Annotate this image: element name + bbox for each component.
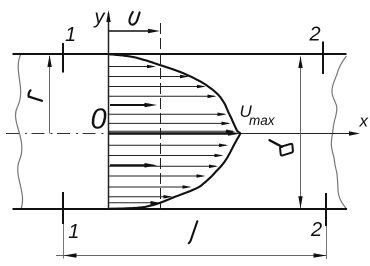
r label (rotated, drawn) <box>29 90 42 101</box>
parabolic velocity profile curve (top half) <box>110 54 241 133</box>
bold mean velocity arrow (bottom half) <box>110 164 145 166</box>
velocity vector bottom row 7 <box>109 202 158 204</box>
velocity vector bottom row 2 <box>109 155 222 157</box>
section mark 1 (bottom) <box>62 192 64 224</box>
l label (drawn) <box>189 221 198 243</box>
section mark 2 (top) <box>322 42 324 75</box>
diameter d dimension line <box>300 57 302 209</box>
velocity vector top row 2 <box>109 76 187 78</box>
svg-text:2: 2 <box>310 219 322 241</box>
svg-text:1: 1 <box>68 221 79 243</box>
velocity vector top row 3 <box>109 86 204 88</box>
section mark 1 (top) <box>62 43 64 73</box>
velocity vector bottom row 1 <box>109 144 226 146</box>
svg-text:2: 2 <box>309 24 321 46</box>
svg-text:y: y <box>93 7 106 29</box>
section mark 2 (bottom) <box>325 193 327 226</box>
bottom pipe wall <box>13 208 348 210</box>
velocity vector bottom row 5 <box>109 186 190 188</box>
mean velocity dashed line <box>160 23 162 209</box>
velocity vector bottom row 4 <box>109 175 204 177</box>
svg-text:max: max <box>249 113 276 128</box>
x-axis line <box>241 133 352 135</box>
v label <box>129 12 139 25</box>
mean velocity v arrow <box>109 30 150 32</box>
svg-text:1: 1 <box>65 24 76 46</box>
velocity vector bottom row 6 <box>109 196 171 198</box>
center bold u_max arrow <box>109 132 230 134</box>
svg-text:0: 0 <box>91 103 107 135</box>
pipe centerline (dash-dot) <box>6 133 112 135</box>
velocity vector top row 7 <box>109 130 233 132</box>
right pipe break wavy line <box>331 56 347 209</box>
velocity vector bottom row 3 <box>109 165 216 167</box>
top pipe wall <box>13 53 347 55</box>
d label (rotated, drawn) <box>270 140 283 147</box>
length l dimension line <box>56 255 327 257</box>
velocity vector top row 6 <box>109 122 229 124</box>
svg-text:x: x <box>359 112 369 131</box>
left pipe break wavy line <box>16 54 23 210</box>
velocity vector top row 5 <box>109 113 225 115</box>
radius r dimension line <box>49 56 51 134</box>
velocity vector top row 1 <box>109 66 154 68</box>
y-axis arrowhead <box>106 10 110 22</box>
bold mean velocity arrow (top half) <box>110 104 146 106</box>
x-axis arrowhead <box>349 131 360 135</box>
parabolic velocity profile curve (bottom half) <box>110 133 241 208</box>
velocity vector top row 4 <box>109 95 215 97</box>
y-axis <box>108 13 110 209</box>
